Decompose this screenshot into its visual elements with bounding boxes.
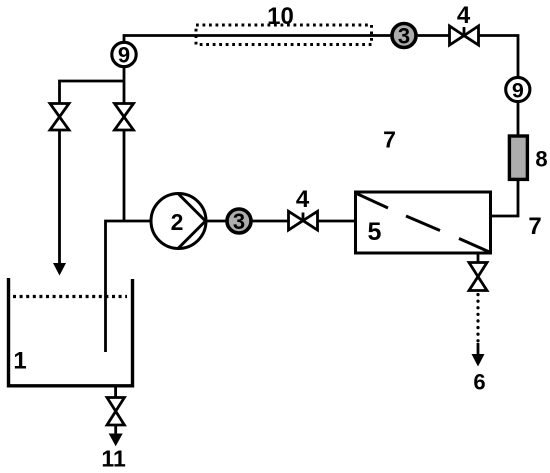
wire: pump discharge to module 5: [206, 220, 355, 223]
pump 2 (circle with triangle): [151, 194, 206, 249]
valve (module drain, vertical bowtie): [469, 263, 487, 291]
svg-text:3: 3: [398, 24, 410, 49]
svg-text:9: 9: [118, 43, 130, 68]
valve 4 (middle, horizontal bowtie with stem): [289, 186, 318, 230]
instrument 9 (right circle): [506, 77, 530, 102]
svg-text:9: 9: [512, 79, 524, 103]
wire: pump suction line and dip tube into tank: [106, 221, 152, 352]
svg-text:5: 5: [368, 218, 382, 246]
svg-text:4: 4: [296, 186, 310, 213]
svg-text:4: 4: [457, 2, 471, 29]
svg-text:8: 8: [535, 147, 547, 172]
wire: stem below valve 11: [114, 425, 117, 434]
svg-text:7: 7: [383, 127, 396, 153]
valve (right branch, vertical bowtie): [115, 104, 134, 131]
sensor 3 (gray circle on top header): [392, 24, 416, 49]
sensor 3 (gray circle on discharge line): [227, 209, 251, 234]
instrument 9 (top-left circle): [112, 42, 136, 67]
svg-text:11: 11: [101, 446, 126, 472]
component 8 (gray rectangle): [509, 136, 547, 179]
svg-text:7: 7: [528, 213, 541, 240]
liquid level (dotted line) in tank 1: [13, 295, 127, 298]
wire: tank drain stub: [114, 386, 117, 397]
wire: right branch down through valve to pump suction: [123, 81, 126, 221]
svg-text:2: 2: [171, 209, 184, 235]
valve (left branch, vertical bowtie): [50, 104, 69, 131]
wire: branch header at y=81 and left branch down through valve to tank feed arrow: [60, 81, 125, 264]
svg-text:1: 1: [13, 348, 26, 375]
arrowhead: outlet 6: [472, 354, 485, 367]
wire: dotted outlet line below valve 6: [476, 295, 479, 342]
wire: top header from instrument 9 up, across to right corner, down to module 5 outlet: [124, 36, 518, 217]
svg-text:10: 10: [267, 3, 294, 30]
dotted enclosure 10: [196, 25, 372, 45]
svg-text:6: 6: [473, 370, 485, 395]
wire: short stem above outlet arrowhead 6: [477, 343, 480, 356]
wire: module 5 bottom drain stub: [477, 253, 480, 263]
valve 11 (tank drain, vertical bowtie): [107, 398, 124, 426]
tank 1 (open-top vessel): [9, 278, 133, 386]
arrowhead: drain outlet 11: [109, 434, 123, 447]
arrowhead: feed into tank 1: [53, 263, 66, 276]
module 5 (membrane box with dashed diagonal): [356, 192, 491, 253]
svg-text:3: 3: [233, 209, 245, 234]
valve 4 (top, horizontal bowtie with stem): [450, 2, 479, 45]
